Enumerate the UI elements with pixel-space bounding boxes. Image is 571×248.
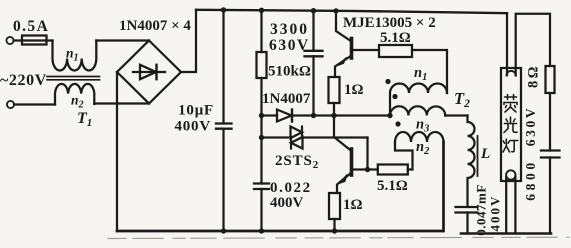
svg-text:5.1Ω: 5.1Ω <box>380 30 411 46</box>
svg-text:L: L <box>480 146 490 162</box>
terminal input bottom <box>7 101 14 108</box>
wire n2 to bridge bottom <box>94 102 149 104</box>
wire n3 to inductor L <box>445 114 467 116</box>
svg-text:~220V: ~220V <box>0 72 47 89</box>
svg-text:1N4007: 1N4007 <box>262 91 311 107</box>
resistor 510k branch wire <box>260 10 262 52</box>
svg-text:400V: 400V <box>270 195 304 211</box>
lamp bottom-right pin wire <box>514 177 516 234</box>
wire diac to Q2 base <box>366 138 368 170</box>
bridge internal diode <box>133 71 165 73</box>
wire 5.1 Ohm to n1 right end <box>412 50 447 93</box>
node dot bottom rail 1 Ohm <box>332 228 337 233</box>
capacitor 6800 630V <box>541 149 560 151</box>
svg-text:1Ω: 1Ω <box>344 82 364 98</box>
svg-text:8Ω: 8Ω <box>526 64 542 88</box>
top rail <box>196 10 507 13</box>
wire 8 Ohm to 6800 cap <box>549 93 551 151</box>
phase dot n3 <box>395 121 400 126</box>
inductor L core line <box>477 136 479 176</box>
transistor Q1 base bar <box>350 39 354 59</box>
node dot T2 n1/n3 junction <box>387 113 392 118</box>
capacitor 3300 630V <box>312 11 314 51</box>
lamp bottom-left pin wire <box>505 177 507 234</box>
node dot top rail 3300 <box>311 8 316 13</box>
resistor 1 Ohm (Q2 emitter) <box>329 193 340 219</box>
lamp top filament <box>507 71 516 76</box>
svg-text:510kΩ: 510kΩ <box>268 64 311 80</box>
transistor Q1 base wire <box>352 49 380 51</box>
node dot top rail 10uF <box>221 7 226 12</box>
lamp bottom filament <box>506 170 515 179</box>
inductor L <box>468 116 475 208</box>
transformer T2 winding n3 <box>390 106 445 115</box>
svg-text:T1: T1 <box>77 110 92 129</box>
capacitor 0.047mF 400V <box>456 206 478 208</box>
scan artifact bottom edge <box>108 237 569 238</box>
svg-text:6800: 6800 <box>523 159 538 200</box>
transformer T1 winding n2 <box>55 84 94 105</box>
svg-text:n2: n2 <box>71 93 84 111</box>
transformer T1 winding n1 <box>53 41 97 71</box>
node dot Q1 collector top rail <box>333 8 338 13</box>
transistor Q1 emitter <box>335 56 352 78</box>
wire bridge right corner to top rail <box>181 10 196 72</box>
wire top rail to lamp top-left pin <box>506 13 508 75</box>
node dot 510k diac junction <box>259 135 264 140</box>
svg-text:T2: T2 <box>454 89 470 110</box>
svg-text:1Ω: 1Ω <box>343 197 363 213</box>
transformer T1 core <box>47 76 100 78</box>
wire <box>14 39 53 41</box>
fuse F 0.5A <box>22 36 47 45</box>
svg-text:1N4007 × 4: 1N4007 × 4 <box>119 18 191 34</box>
phase dot n1 <box>385 79 390 84</box>
node dot bottom rail 0.022 <box>259 228 264 233</box>
resistor 510kOhm <box>257 52 267 78</box>
char deng <box>503 139 518 152</box>
transistor Q2 emitter arrow <box>339 175 347 184</box>
lamp top-right pin wire <box>516 14 550 76</box>
resistor 5.1 Ohm (Q1 base) <box>379 45 412 57</box>
svg-text:0.047mF: 0.047mF <box>474 184 489 236</box>
svg-text:3300: 3300 <box>270 21 309 38</box>
wire n1 to bridge top <box>96 39 149 41</box>
char ying <box>504 95 517 113</box>
wire 5.1 Ohm (Q2) to n2 left end <box>395 142 413 170</box>
lamp label (vertical Chinese) <box>503 95 518 153</box>
svg-text:5.1Ω: 5.1Ω <box>377 178 408 194</box>
terminal input top <box>6 37 13 44</box>
capacitor 10uF 400V <box>222 10 224 124</box>
char guang <box>504 117 517 133</box>
transistor Q2 MJE13005 collector <box>334 116 352 152</box>
resistor 5.1 Ohm (Q2 base) <box>378 165 408 175</box>
svg-text:400V: 400V <box>174 119 211 135</box>
svg-text:n1: n1 <box>414 65 427 83</box>
diode D5 1N4007 <box>262 114 278 116</box>
bottom rail <box>117 142 444 231</box>
svg-text:630V: 630V <box>523 106 538 146</box>
capacitor 0.022 400V <box>254 182 269 184</box>
node dot top rail 510k <box>259 8 264 13</box>
node dot 3300 midpoint <box>311 113 316 118</box>
transistor Q2 base bar <box>350 149 354 175</box>
svg-text:400V: 400V <box>488 195 503 232</box>
resistor 1 Ohm (Q1 emitter) <box>329 77 340 103</box>
node dot Q2 base junction <box>365 167 370 172</box>
wire <box>14 103 55 105</box>
transformer T2 winding n2 <box>395 132 444 142</box>
svg-text:MJE13005 × 2: MJE13005 × 2 <box>343 15 436 31</box>
transistor Q1 MJE13005 collector <box>336 11 352 42</box>
bottom rail right segment <box>461 232 551 235</box>
fluorescent lamp tube <box>501 68 521 181</box>
diac 2STS2 <box>262 136 291 138</box>
svg-text:10μF: 10μF <box>178 103 214 119</box>
resistor 8 Ohm <box>546 66 555 93</box>
transistor Q2 base wire <box>352 168 378 170</box>
wire bridge left corner to bottom rail <box>116 72 118 231</box>
phase dot n1 lower <box>392 94 397 99</box>
bridge rectifier 1N4007 x4 <box>117 41 181 104</box>
node dot midpoint 1 Ohm bottom <box>331 113 336 118</box>
transformer T2 winding n1 <box>390 84 447 116</box>
transistor Q2 emitter <box>337 173 352 194</box>
node dot 510k diode junction <box>259 113 264 118</box>
node dot bottom rail 10uF <box>221 228 226 233</box>
transistor Q1 emitter arrow <box>338 57 347 65</box>
svg-text:0.022: 0.022 <box>270 180 312 196</box>
svg-text:0.5A: 0.5A <box>13 18 49 35</box>
svg-text:2STS2: 2STS2 <box>275 153 319 171</box>
